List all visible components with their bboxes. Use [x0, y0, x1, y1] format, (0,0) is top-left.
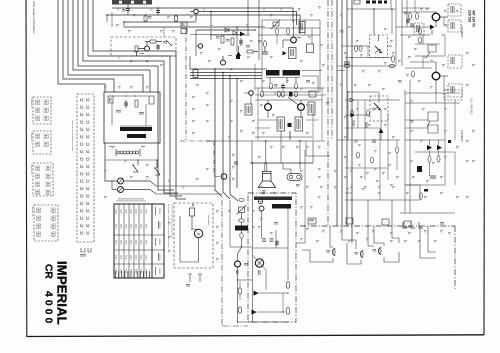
wire — [429, 151, 431, 157]
wire — [258, 34, 320, 36]
transistor T302 symbol — [374, 103, 381, 110]
wire — [304, 150, 306, 243]
dark capacitor — [417, 166, 422, 172]
table row line bold — [151, 204, 153, 278]
wire stub — [239, 281, 241, 288]
transistor T404 symbol — [428, 112, 438, 121]
wire pot feed — [150, 181, 200, 186]
switch contact — [81, 165, 83, 168]
speaker impedance label — [262, 189, 266, 192]
power supply dash-dot box — [248, 193, 296, 322]
wire — [251, 141, 253, 163]
resistor R111 — [135, 46, 138, 52]
wire — [200, 270, 207, 274]
capacitor — [344, 61, 350, 63]
label box TA — [245, 104, 252, 115]
dark diode — [283, 51, 287, 55]
wire — [263, 266, 267, 290]
switch contact — [81, 187, 83, 190]
diode D104 dark upward — [236, 51, 241, 56]
wire long — [420, 226, 436, 258]
label box 3 — [308, 102, 315, 115]
wire — [258, 119, 277, 121]
resistor — [367, 110, 370, 116]
wire — [373, 9, 375, 35]
wire — [357, 100, 359, 128]
wire — [255, 87, 325, 89]
trim capacitor — [108, 96, 113, 103]
wire — [104, 143, 106, 160]
junction — [241, 246, 242, 247]
component box — [289, 48, 297, 59]
label — [340, 29, 344, 32]
wire — [252, 163, 254, 322]
capacitor — [125, 100, 127, 108]
wire — [345, 127, 380, 129]
wire — [305, 141, 307, 156]
wire — [238, 279, 253, 281]
mains transformer winding dark — [272, 204, 291, 209]
wire — [105, 159, 157, 161]
wire — [255, 136, 312, 138]
wire — [255, 94, 326, 96]
capacitor C101 — [127, 5, 129, 16]
jack symbol — [403, 222, 407, 228]
transistor label — [235, 270, 238, 274]
wire — [259, 292, 289, 294]
component box — [309, 91, 316, 97]
wire — [250, 95, 252, 104]
wire — [367, 46, 369, 58]
resistor R104 — [175, 16, 178, 21]
trimmer pot R201 — [273, 22, 279, 26]
power box bottom rail — [253, 321, 289, 323]
chassis line dash-dot — [185, 28, 187, 140]
wire — [402, 11, 436, 13]
diagonal wire — [288, 97, 298, 105]
wire — [261, 211, 263, 238]
ferrite rod dark bar — [127, 134, 146, 138]
wire — [415, 151, 445, 153]
wire — [345, 114, 351, 116]
table column lines — [118, 204, 120, 278]
junction — [214, 68, 216, 70]
resistor — [351, 110, 354, 116]
table caption — [118, 198, 144, 201]
svg-text:alle Spannungen gegen Chassis: alle Spannungen gegen Chassis gemessen — [171, 204, 173, 239]
pilot lamp La2 — [255, 259, 263, 267]
wire — [156, 160, 158, 168]
wire — [405, 184, 420, 186]
table hatch row — [115, 271, 117, 278]
switch contact — [81, 172, 83, 175]
wire — [337, 139, 400, 141]
switch contact — [81, 179, 83, 182]
wire — [317, 76, 319, 92]
wire bus vertical — [236, 79, 238, 189]
label — [440, 221, 444, 224]
label — [244, 262, 248, 265]
wire — [348, 91, 379, 93]
wire — [261, 20, 263, 92]
dashed box FM demod — [370, 35, 388, 58]
wire — [196, 29, 255, 31]
switch contact — [81, 194, 83, 197]
switch contact — [81, 98, 83, 101]
wire — [345, 99, 400, 101]
wire — [440, 75, 448, 77]
wire — [391, 10, 393, 35]
wire — [337, 70, 345, 72]
resistor — [295, 83, 298, 89]
transistor T402 symbol — [428, 45, 436, 52]
diode D303 dark upward — [379, 129, 384, 134]
wire pot feed 2 — [150, 190, 200, 195]
wire — [435, 62, 437, 72]
wire — [124, 21, 196, 23]
component on chassis 3 — [382, 219, 389, 225]
diode D103 dark — [240, 32, 245, 37]
switch contact — [81, 224, 83, 227]
transistor T104 — [198, 44, 202, 48]
dashed box stereo decoder — [111, 37, 176, 56]
wire — [395, 9, 397, 66]
wire — [111, 103, 113, 125]
wire — [321, 88, 323, 140]
resistor R203 — [287, 29, 290, 35]
chassis dash-dot horizontal — [300, 225, 455, 227]
wire bus nest — [73, 0, 150, 92]
svg-text:Tonbandteil: Tonbandteil — [207, 214, 210, 226]
dark capacitor — [289, 92, 293, 97]
resistor — [437, 156, 440, 162]
transistor T601 — [235, 261, 241, 267]
wire — [299, 141, 301, 163]
wire top bus — [112, 8, 293, 22]
wire — [289, 131, 291, 140]
wire bus nest — [93, 0, 176, 196]
DIN connector Bu1 — [332, 248, 335, 256]
label — [274, 221, 278, 224]
dashed box driver 4 — [448, 84, 462, 97]
wire — [300, 100, 302, 104]
wire horizontal run — [190, 68, 262, 70]
wire to connector 3 — [368, 200, 374, 246]
wire — [405, 119, 428, 121]
resistor R115 — [221, 36, 224, 43]
dashed box output — [444, 90, 462, 100]
capacitor oval — [239, 199, 244, 202]
svg-text:Ansicht von: Ansicht von — [30, 165, 33, 174]
switch contact — [81, 120, 83, 123]
wire — [210, 34, 250, 36]
switch contact — [81, 128, 83, 131]
switch S2 contact — [155, 168, 160, 175]
wire bus nest — [88, 0, 170, 193]
junction dots — [125, 95, 126, 96]
diode dark — [430, 25, 435, 30]
wire — [238, 247, 242, 261]
wire elbow — [384, 252, 399, 262]
capacitor — [407, 18, 409, 24]
wire — [337, 65, 396, 67]
capacitor — [282, 83, 284, 90]
wire — [241, 238, 243, 247]
border frame left — [25, 0, 28, 337]
switch S1 contact — [133, 165, 138, 172]
wire — [283, 163, 291, 174]
label — [228, 54, 232, 57]
svg-text:4000: 4000 — [43, 291, 54, 326]
wire top bus 2 — [199, 12, 297, 26]
wire riser — [236, 27, 238, 52]
capacitor C110 — [157, 44, 159, 50]
resistor — [264, 41, 267, 47]
lamp label — [257, 270, 260, 275]
label — [354, 139, 358, 142]
svg-text:Tastensatz von der Bestückungs: Tastensatz von der Bestückungsseite — [71, 120, 74, 151]
resistor oval vertical — [240, 233, 243, 239]
thermal switch — [259, 206, 264, 211]
wire — [345, 167, 388, 169]
wire — [405, 67, 432, 69]
wire bus vertical — [230, 76, 238, 202]
DIN connector Bu3 — [378, 247, 381, 255]
capacitor oval — [344, 65, 349, 68]
potentiometer P1 — [118, 178, 124, 184]
diode D302 dark — [351, 113, 356, 118]
power transistor T401 — [432, 13, 440, 21]
IF filter FB2 — [181, 29, 187, 34]
capacitor — [234, 161, 238, 163]
wire — [255, 127, 270, 129]
capacitor — [372, 139, 376, 141]
wire — [396, 140, 398, 147]
wire — [105, 160, 112, 181]
wire — [410, 61, 436, 63]
label box 2 — [295, 117, 303, 131]
transistor T301 symbol — [375, 46, 382, 53]
diode D102 — [233, 31, 237, 35]
wire — [396, 26, 433, 28]
wire — [253, 255, 257, 260]
transistor T101 — [194, 9, 199, 14]
motor M1 — [194, 229, 202, 237]
wire — [112, 180, 118, 182]
wire to connector — [330, 226, 333, 247]
wire — [289, 131, 291, 140]
capacitor C103 — [157, 8, 159, 15]
svg-text:Änderungen vorbehalten!: Änderungen vorbehalten! — [32, 1, 36, 34]
wire — [264, 163, 266, 171]
IF transformer bar dark — [120, 127, 152, 131]
dark mark — [448, 140, 451, 143]
wire — [238, 321, 253, 323]
wire — [112, 189, 118, 191]
wire — [414, 0, 416, 12]
DIN connector Bu2 — [360, 250, 363, 258]
wire riser 2 — [390, 0, 392, 9]
wire — [112, 95, 148, 97]
svg-text:IMPERIAL: IMPERIAL — [55, 261, 70, 325]
wire — [443, 17, 445, 26]
resistor stack 2 — [270, 237, 274, 240]
resistor — [357, 152, 360, 158]
wire zigzag 3 — [358, 257, 379, 266]
wire riser — [395, 0, 397, 9]
wire — [257, 88, 259, 140]
wire bus nest — [63, 0, 114, 92]
component on chassis — [308, 218, 316, 224]
IF filter FB1 — [181, 22, 187, 27]
IC pinout box IC4 — [34, 205, 58, 241]
switch contact — [81, 135, 83, 138]
pin — [378, 96, 380, 103]
wire — [429, 140, 431, 145]
junction — [391, 9, 392, 10]
wire — [401, 0, 403, 66]
label — [163, 40, 167, 43]
capacitor — [276, 240, 278, 246]
wire — [345, 57, 392, 59]
resistor — [392, 56, 395, 62]
wire hooks to switch cluster — [176, 196, 186, 199]
svg-text:FM 98000: FM 98000 — [460, 130, 464, 142]
wire — [237, 267, 239, 322]
pot with arrow — [239, 207, 245, 213]
wire bus vertical — [341, 0, 343, 226]
wire — [257, 311, 285, 313]
capacitor — [430, 175, 436, 177]
wire top bus 4 — [124, 26, 262, 28]
rectifier diode D601 — [254, 291, 259, 296]
wire — [163, 27, 165, 37]
svg-text:228 526: 228 526 — [468, 10, 472, 22]
dashed box input — [414, 23, 424, 35]
trimmer — [166, 40, 172, 46]
junction — [373, 8, 375, 10]
transistor T201 — [291, 37, 297, 43]
transformer windings leads — [269, 78, 271, 84]
wire — [444, 35, 446, 56]
wire — [293, 20, 295, 37]
wire — [387, 113, 389, 180]
wire — [280, 131, 282, 163]
wire — [306, 119, 318, 121]
dark capacitor 2 — [288, 123, 292, 127]
capacitor oval — [389, 65, 394, 68]
wire — [302, 75, 318, 77]
FM IF transformer dark bar 2 — [283, 70, 301, 76]
scattered value labels — [117, 7, 120, 10]
label — [410, 119, 414, 122]
border frame right — [483, 0, 486, 335]
label cluster — [258, 39, 262, 42]
table cell text marks — [115, 209, 118, 214]
switch contact — [81, 142, 83, 145]
resistor — [261, 91, 264, 97]
diode D101 — [225, 28, 229, 32]
dashed box driver — [448, 4, 461, 16]
dashed box driver 3 — [448, 55, 462, 68]
wire — [230, 246, 252, 248]
svg-text:Ansicht von: Ansicht von — [31, 207, 34, 216]
switch contact — [81, 150, 83, 153]
wire long 2 — [428, 226, 436, 252]
wire — [262, 19, 320, 21]
label box — [277, 117, 285, 131]
svg-text:FM 98000: FM 98000 — [460, 26, 464, 38]
dark bar capacitor — [235, 226, 248, 231]
junction — [252, 162, 254, 164]
wire to connector 4 — [374, 226, 384, 246]
wire — [287, 209, 289, 281]
wire — [400, 34, 430, 36]
wire — [406, 0, 408, 27]
coil core lines — [120, 125, 152, 127]
pin bracket 2 — [198, 274, 202, 282]
wire — [409, 93, 411, 213]
dark mark — [424, 189, 428, 192]
wire — [402, 7, 430, 9]
wire — [440, 16, 448, 18]
wire — [445, 151, 455, 153]
wire bus nest — [78, 0, 158, 187]
motor control dash-dot left — [221, 200, 223, 326]
wire bus vertical — [351, 0, 353, 243]
wire — [304, 20, 306, 35]
wire — [405, 127, 428, 129]
transistor T106 — [249, 91, 254, 96]
wire — [415, 55, 445, 57]
wire — [444, 93, 446, 185]
wire — [405, 139, 445, 141]
wire — [422, 56, 424, 68]
wire vertical inner — [229, 200, 231, 247]
resistor — [295, 91, 298, 97]
resistor oval — [238, 288, 242, 294]
resistor — [412, 71, 415, 77]
label inside box — [116, 109, 121, 112]
junction — [106, 14, 108, 16]
junction — [254, 29, 256, 31]
component under transformer — [270, 83, 273, 89]
resistor — [420, 193, 423, 199]
IF transformer block — [112, 0, 152, 5]
label — [326, 101, 330, 104]
wire — [405, 92, 460, 94]
resistor R116 — [231, 38, 234, 45]
switch contact — [81, 209, 83, 212]
svg-text:M: M — [197, 232, 200, 236]
wire — [311, 28, 313, 44]
wire — [380, 110, 382, 140]
pin — [378, 35, 380, 41]
switch contact — [81, 113, 83, 116]
resistor stack — [409, 13, 412, 19]
resistor R110 — [150, 40, 156, 43]
wire — [200, 193, 223, 195]
wire horizontal run — [190, 72, 262, 74]
chassis dash-dot vertical right — [454, 226, 456, 290]
border frame bottom — [27, 335, 484, 337]
switch bank Tastensatz box — [77, 94, 94, 242]
wire riser — [106, 15, 108, 22]
resistor 2 — [359, 46, 362, 52]
resistor — [396, 147, 399, 153]
resistor R117 — [247, 50, 253, 53]
dashed box AFC stage — [370, 96, 388, 121]
